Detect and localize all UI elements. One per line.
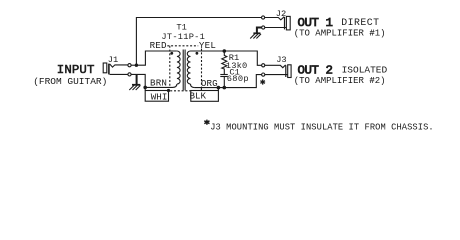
svg-text:(TO AMPLIFIER #2): (TO AMPLIFIER #2) [294, 76, 386, 86]
svg-text:T1: T1 [176, 23, 186, 33]
svg-text:J3 MOUNTING MUST INSULATE IT F: J3 MOUNTING MUST INSULATE IT FROM CHASSI… [210, 122, 434, 132]
svg-text:(TO AMPLIFIER #1): (TO AMPLIFIER #1) [294, 29, 386, 39]
svg-text:J2: J2 [276, 9, 286, 19]
svg-text:DIRECT: DIRECT [341, 17, 379, 28]
svg-text:BLK: BLK [190, 91, 207, 102]
svg-text:ISOLATED: ISOLATED [342, 64, 388, 75]
svg-text:ORG: ORG [201, 78, 218, 89]
svg-text:WHI: WHI [151, 91, 168, 102]
svg-text:J1: J1 [108, 55, 118, 65]
svg-text:INPUT: INPUT [57, 63, 95, 77]
svg-text:RED: RED [150, 40, 167, 51]
svg-text:J3: J3 [276, 55, 286, 65]
svg-text:(FROM GUITAR): (FROM GUITAR) [33, 76, 107, 87]
svg-text:YEL: YEL [199, 40, 216, 51]
svg-text:680p: 680p [227, 74, 249, 84]
svg-text:BRN: BRN [150, 77, 167, 88]
